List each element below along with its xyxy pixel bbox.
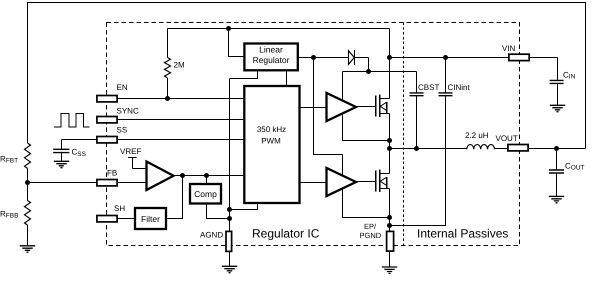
- svg-text:PWM: PWM: [261, 137, 281, 146]
- svg-text:Filter: Filter: [141, 214, 160, 224]
- svg-text:350 kHz: 350 kHz: [257, 125, 286, 134]
- svg-text:Linear: Linear: [259, 45, 283, 55]
- svg-text:CBST: CBST: [418, 83, 439, 92]
- svg-text:Regulator IC: Regulator IC: [252, 227, 320, 241]
- svg-text:VREF: VREF: [120, 147, 141, 156]
- svg-text:SS: SS: [117, 126, 128, 135]
- svg-text:2.2 uH: 2.2 uH: [465, 131, 489, 140]
- svg-text:VIN: VIN: [502, 44, 516, 53]
- svg-text:FB: FB: [107, 169, 117, 178]
- svg-text:SYNC: SYNC: [117, 107, 139, 116]
- svg-text:EN: EN: [117, 83, 128, 92]
- svg-text:CINint: CINint: [448, 83, 471, 92]
- svg-text:SH: SH: [114, 204, 125, 213]
- svg-text:Internal Passives: Internal Passives: [417, 227, 508, 241]
- svg-text:Regulator: Regulator: [253, 55, 290, 65]
- svg-text:VOUT: VOUT: [496, 134, 518, 143]
- svg-text:2M: 2M: [174, 61, 185, 70]
- svg-text:EP/: EP/: [364, 222, 377, 231]
- svg-text:AGND: AGND: [200, 231, 223, 240]
- svg-text:PGND: PGND: [360, 231, 382, 240]
- svg-text:Comp: Comp: [194, 189, 217, 199]
